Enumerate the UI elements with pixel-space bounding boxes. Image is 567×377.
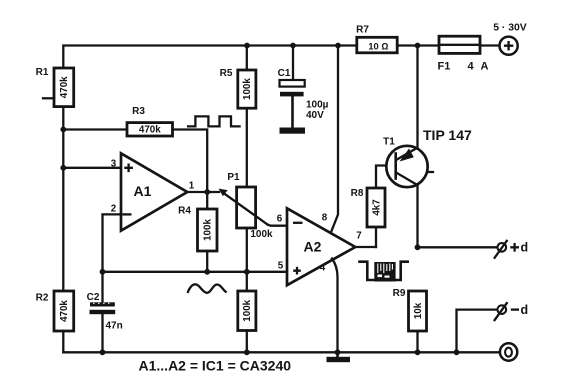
caption A1...A2 = IC1 = CA3240	[139, 358, 292, 374]
waveform triangle-sine symbol	[188, 284, 227, 293]
node junction A1 output / R4 / feedback	[204, 189, 210, 195]
ground symbol	[327, 352, 351, 362]
svg-text:R9: R9	[393, 288, 406, 299]
svg-text:6: 6	[277, 214, 283, 225]
wire A2 output to R8 bottom	[355, 246, 376, 248]
resistor R7	[356, 25, 397, 53]
wire left rail to R2	[62, 168, 64, 291]
pin 7	[356, 231, 362, 242]
node junction R6 bottom rail	[244, 349, 250, 355]
svg-text:2: 2	[111, 204, 117, 215]
resistor R2	[36, 291, 74, 331]
svg-text:R1: R1	[36, 67, 49, 78]
svg-text:100µ: 100µ	[306, 100, 329, 111]
svg-text:470k: 470k	[59, 76, 70, 98]
node junction R4 bottom	[204, 269, 210, 275]
svg-text:4: 4	[468, 61, 475, 73]
pin 1	[189, 181, 195, 192]
svg-text:C2: C2	[87, 292, 100, 303]
node junction C1 top	[290, 43, 296, 49]
node junction C2 bottom rail	[100, 349, 106, 355]
node junction R3 branch	[60, 127, 66, 133]
svg-text:C1: C1	[278, 68, 291, 79]
node junction -d bottom rail	[454, 349, 460, 355]
capacitor C2	[87, 272, 123, 353]
svg-text:40V: 40V	[306, 110, 324, 121]
pin 5	[278, 260, 284, 271]
op-amp A1	[121, 153, 187, 230]
svg-text:R5: R5	[220, 68, 233, 79]
svg-text:470k: 470k	[139, 125, 161, 136]
svg-text:100k: 100k	[242, 299, 253, 321]
svg-text:d: d	[521, 303, 529, 317]
wire R3 right to feedback corner	[173, 130, 208, 193]
wire top rail between R7 and F1	[397, 44, 439, 46]
capacitor C1	[278, 46, 329, 134]
svg-text:8: 8	[322, 213, 328, 224]
svg-text:F1: F1	[438, 61, 451, 73]
op-amp A2	[287, 208, 355, 285]
wire top rail between F1 and supply terminal	[480, 44, 499, 46]
resistor R1	[36, 67, 74, 106]
svg-text:R3: R3	[132, 106, 145, 117]
wire +d run	[418, 246, 497, 248]
svg-text:10 Ω: 10 Ω	[368, 42, 388, 52]
svg-text:R7: R7	[356, 25, 369, 36]
wire pin3 input	[63, 167, 121, 169]
node junction pin3 branch	[60, 165, 66, 171]
wire T1 collector down to +d node	[416, 185, 418, 247]
node junction T1 collector / fuse	[415, 43, 421, 49]
wire R3 left feed	[63, 128, 127, 130]
svg-text:A1...A2 = IC1 = CA3240: A1...A2 = IC1 = CA3240	[139, 358, 292, 374]
wire pin5 long run	[103, 271, 288, 273]
svg-text:4k7: 4k7	[371, 199, 382, 216]
svg-text:A1: A1	[134, 183, 152, 199]
pin 2	[111, 204, 117, 215]
wire P1 wiper to pin6	[268, 225, 288, 226]
wire left rail R1 to R3 node	[62, 107, 64, 130]
node junction pin8 branch	[335, 43, 341, 49]
supply terminal 5-30V	[493, 23, 527, 55]
node junction R9 bottom rail	[415, 349, 421, 355]
svg-text:P1: P1	[227, 172, 240, 183]
svg-text:d: d	[521, 241, 529, 255]
svg-text:R2: R2	[36, 293, 49, 304]
terminal +d	[495, 241, 529, 258]
svg-text:3: 3	[111, 159, 117, 170]
node junction pin2 / C2	[100, 269, 106, 275]
svg-text:4: 4	[320, 263, 326, 274]
resistor R3	[127, 106, 173, 136]
pin 6	[277, 214, 283, 225]
svg-text:100k: 100k	[250, 229, 273, 240]
svg-text:10k: 10k	[413, 302, 424, 319]
label TIP 147	[423, 127, 472, 143]
node junction pin4 ground	[335, 349, 341, 355]
svg-text:7: 7	[356, 231, 362, 242]
potentiometer P1	[219, 172, 273, 240]
svg-text:R4: R4	[178, 206, 191, 217]
pin 3	[111, 159, 117, 170]
svg-text:47n: 47n	[106, 321, 123, 332]
svg-text:100k: 100k	[242, 78, 253, 100]
fuse F1	[438, 36, 489, 72]
svg-text:T1: T1	[383, 137, 395, 148]
terminal -d	[495, 303, 529, 320]
wire -d branch	[457, 310, 497, 353]
wire pin4 to ground rail	[332, 259, 338, 353]
svg-text:100k: 100k	[203, 219, 214, 241]
node junction P1 bottom / pin5 wire	[244, 269, 250, 275]
pin 4	[320, 263, 326, 274]
resistor R5	[220, 46, 256, 109]
svg-text:5: 5	[278, 260, 284, 271]
waveform square wave symbol	[187, 116, 241, 126]
svg-text:A: A	[481, 61, 489, 73]
resistor R6 100k below P1	[238, 291, 256, 352]
transistor T1	[383, 137, 433, 188]
wire R5 bottom to P1 top	[246, 108, 248, 187]
terminal 0	[500, 343, 517, 360]
svg-text:470k: 470k	[59, 300, 70, 322]
wire T1 emitter to top rail	[416, 46, 418, 149]
resistor R9	[393, 288, 427, 352]
svg-text:TIP 147: TIP 147	[423, 127, 472, 143]
wire pin8 from top rail	[331, 46, 338, 232]
pin 8	[322, 213, 328, 224]
svg-text:A2: A2	[304, 239, 322, 255]
wire pin2 loop down to C2 node	[103, 214, 122, 271]
wire A1 output	[187, 191, 219, 193]
wire left rail to pin3 node	[62, 130, 64, 168]
resistor R8	[351, 166, 387, 248]
load motor pictogram	[360, 262, 408, 282]
wire P1 bottom	[246, 228, 248, 291]
wire R2 to bottom rail	[62, 331, 64, 352]
wire top rail left segment	[63, 46, 359, 68]
svg-text:1: 1	[189, 181, 195, 192]
resistor R4	[178, 192, 217, 272]
node junction +d branch	[415, 244, 421, 250]
node junction R5 top	[244, 43, 250, 49]
svg-text:5 · 30V: 5 · 30V	[493, 23, 527, 34]
wire bottom rail	[63, 351, 500, 353]
svg-text:R8: R8	[351, 188, 364, 199]
